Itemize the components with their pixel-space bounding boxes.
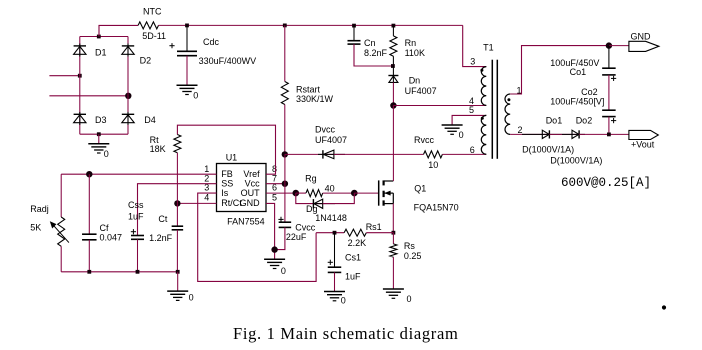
wire bridge right rail — [127, 37, 129, 135]
wire Vcc rail — [284, 154, 286, 222]
wire pin3 Is loop — [198, 193, 316, 281]
svg-text:1uF: 1uF — [345, 272, 361, 282]
node junction FB-Cf — [86, 171, 92, 177]
svg-text:D(1000V/1A): D(1000V/1A) — [522, 144, 574, 154]
capacitor Ct 1.2nF — [149, 214, 183, 243]
svg-text:100uF/450[V]: 100uF/450[V] — [550, 96, 604, 106]
resistor Rn 110K — [390, 36, 425, 58]
wire Ct bottom — [176, 230, 178, 272]
svg-text:Rs: Rs — [404, 241, 415, 251]
node junction OUT-Rg-Dg — [293, 190, 300, 197]
wire Co2 to Vout — [608, 117, 610, 135]
wire Cdc bottom lead — [186, 56, 188, 85]
diode Dvcc UF4007 — [315, 125, 347, 159]
label Do1 value — [522, 144, 574, 154]
capacitor Cvcc 22uF — [278, 217, 315, 242]
diode D2 — [122, 44, 151, 66]
node junction Dn-pin4-drain — [390, 102, 396, 108]
svg-text:U1: U1 — [226, 152, 238, 162]
svg-text:18K: 18K — [150, 144, 166, 154]
svg-text:Cn: Cn — [364, 38, 376, 48]
svg-text:D2: D2 — [140, 56, 152, 66]
label Do2 value — [550, 155, 602, 165]
wire Rn top lead — [392, 25, 394, 36]
svg-text:0: 0 — [459, 130, 464, 140]
wire Dvcc to Rvcc — [334, 153, 424, 155]
svg-text:3: 3 — [470, 56, 475, 66]
resistor Rg 40 — [305, 174, 335, 197]
svg-text:5D-11: 5D-11 — [142, 31, 166, 41]
svg-text:5K: 5K — [30, 223, 41, 233]
svg-text:Fig. 1 Main schematic diagram: Fig. 1 Main schematic diagram — [233, 324, 458, 343]
wire Dvcc anode lead — [285, 153, 334, 155]
U1 pin numbers right — [272, 164, 277, 203]
port GND flag — [629, 32, 659, 52]
resistor Rstart 330K/1W — [281, 82, 333, 105]
node junction Rstart-Dvcc — [282, 151, 288, 157]
wire Dg branch right — [323, 193, 355, 204]
node junction bus-Rn — [392, 24, 396, 28]
svg-text:Co2: Co2 — [581, 87, 598, 97]
wire NTC left + corner to bridge — [99, 25, 138, 36]
svg-text:0: 0 — [104, 149, 109, 159]
node junction bus-Ct — [176, 270, 180, 274]
svg-text:Radj: Radj — [30, 204, 49, 214]
wire Cs1 bottom — [334, 272, 336, 291]
node junction input2-bridge — [125, 93, 131, 99]
diode D4 — [122, 112, 156, 125]
wire Rvcc to T1 pin6 — [442, 153, 486, 155]
transformer T1 aux winding pins 5-6 — [469, 105, 486, 155]
ground Cs1 — [324, 292, 346, 306]
wire Do2 to Vout flag — [579, 133, 630, 135]
svg-text:0: 0 — [189, 293, 194, 303]
node junction input1-bridge — [78, 74, 82, 78]
wire Q1 source — [392, 204, 394, 233]
ground bottom bus — [167, 291, 193, 303]
svg-text:5: 5 — [469, 105, 474, 115]
node junction Vcc rail-pin7 — [282, 181, 288, 187]
capacitor Css 1uF — [128, 200, 144, 239]
svg-text:OUT: OUT — [241, 188, 261, 198]
svg-text:8.2nF: 8.2nF — [364, 48, 388, 58]
wire Cn bottom to node — [354, 44, 393, 66]
node junction bridge top — [97, 35, 101, 39]
node junction bus-Cn — [352, 24, 356, 28]
diode Dg 1N4148 — [306, 199, 347, 223]
wire Cs1 top lead — [334, 233, 336, 267]
op-amp U1 FAN7554 box — [217, 152, 267, 226]
svg-text:2.2K: 2.2K — [348, 238, 367, 248]
wire bus corner to T1 pin3 — [463, 25, 487, 66]
svg-text:Dn: Dn — [409, 76, 421, 86]
node junction Rg-Dg-gate — [351, 190, 358, 197]
capacitor Cf 0.047 — [82, 223, 122, 242]
label output rating — [561, 176, 651, 190]
svg-text:D3: D3 — [95, 115, 107, 125]
svg-text:330K/1W: 330K/1W — [296, 94, 334, 104]
wire Rstart top lead — [284, 25, 286, 81]
svg-text:Rstart: Rstart — [296, 85, 321, 95]
wire Ct column — [176, 203, 178, 226]
svg-text:0.047: 0.047 — [100, 232, 123, 242]
wire Vref to Rt — [177, 125, 275, 174]
port +Vout flag — [629, 130, 658, 149]
transformer T1 secondary winding pins 1-2 — [505, 86, 523, 135]
diode D1 — [74, 44, 107, 58]
svg-text:0: 0 — [341, 296, 346, 306]
wire Dn cathode lead — [392, 66, 394, 82]
svg-text:NTC: NTC — [143, 7, 162, 17]
svg-text:UF4007: UF4007 — [405, 86, 437, 96]
capacitor Co2 100uF/450[V] — [550, 87, 616, 123]
wire Co1 to Co2 — [608, 75, 610, 110]
wire pin6 OUT stub — [266, 192, 296, 194]
caption — [233, 324, 458, 343]
svg-text:Is: Is — [221, 188, 229, 198]
wire Rs bottom — [392, 257, 394, 289]
svg-text:Do1: Do1 — [546, 116, 563, 126]
wire Cf column top — [88, 174, 90, 234]
svg-text:+Vout: +Vout — [631, 140, 655, 150]
svg-text:FB: FB — [221, 169, 233, 179]
svg-text:1uF: 1uF — [128, 212, 144, 222]
capacitor Cn 8.2nF — [348, 38, 388, 58]
svg-text:Css: Css — [128, 200, 144, 210]
resistor Rs 0.25 — [390, 241, 422, 261]
wire pin2 SS — [138, 184, 217, 236]
node junction bus-Rstart — [283, 24, 287, 28]
node junction bridge bottom — [97, 132, 101, 136]
diode Do2 D(1000V/1A) — [562, 116, 592, 139]
capacitor Cs1 1uF — [328, 252, 361, 281]
node junction Cs1 tap — [333, 231, 337, 235]
wire Rg to gate node — [323, 192, 355, 194]
svg-text:1: 1 — [204, 164, 209, 174]
node junction Rt-Ct-pin4 — [174, 200, 180, 206]
wire pin1 FB — [61, 173, 216, 175]
ground T1 pin5 — [442, 125, 464, 140]
transformer T1 core — [492, 60, 497, 159]
wire pin4 RtCt — [177, 202, 216, 204]
U1 pin names right — [240, 169, 261, 208]
node junction bus-Cf — [87, 270, 91, 274]
stray dot — [662, 305, 666, 309]
wire to GND flag — [609, 45, 630, 47]
node junction Co2-Vout — [607, 133, 611, 137]
svg-text:0: 0 — [281, 266, 286, 276]
thermistor NTC 5D-11 — [138, 7, 166, 42]
svg-text:5: 5 — [272, 192, 277, 202]
wire Cvcc bottom — [275, 227, 285, 249]
wire T1 pin2 to Do1 — [510, 133, 549, 135]
wire top bus — [159, 24, 463, 26]
svg-text:GND: GND — [240, 198, 261, 208]
svg-text:Rs1: Rs1 — [366, 222, 382, 232]
transistor Q1 FQA15N70 — [379, 180, 459, 212]
wire Rt bottom — [176, 153, 178, 204]
svg-text:D1: D1 — [95, 48, 107, 58]
node junction bus-Cdc — [185, 24, 189, 28]
wire AC input line 2 — [49, 95, 128, 97]
diode Dn UF4007 — [388, 76, 436, 96]
svg-text:Dvcc: Dvcc — [315, 125, 335, 135]
node junction source-Rs1-Rs — [392, 231, 396, 235]
wire Radj column top — [60, 174, 62, 217]
wire Rs top lead — [392, 233, 394, 244]
wire pin5 GND column — [266, 203, 275, 259]
svg-text:Do2: Do2 — [576, 116, 593, 126]
wire Q1 drain — [392, 106, 394, 182]
svg-text:GND: GND — [631, 32, 652, 42]
svg-text:Vref: Vref — [243, 169, 260, 179]
node junction Cn-Rn-Dn — [391, 64, 395, 68]
svg-text:40: 40 — [325, 183, 335, 193]
svg-text:D4: D4 — [144, 115, 156, 125]
svg-text:4: 4 — [204, 192, 209, 202]
wire bus ground stem — [177, 272, 179, 291]
svg-text:Co1: Co1 — [570, 67, 587, 77]
transformer T1 primary winding pins 3-4 — [469, 56, 486, 106]
U1 pin numbers left — [204, 164, 209, 203]
svg-text:1N4148: 1N4148 — [315, 213, 347, 223]
svg-text:Q1: Q1 — [414, 184, 426, 194]
svg-text:Cs1: Cs1 — [345, 252, 361, 262]
ground Cdc — [177, 85, 199, 100]
svg-text:330uF/400WV: 330uF/400WV — [199, 56, 257, 66]
wire Dn anode lead — [392, 82, 394, 105]
svg-text:2: 2 — [517, 125, 522, 135]
node junction Co1 top — [606, 42, 612, 48]
wire Do1 to Do2 — [549, 133, 579, 135]
svg-text:600V@0.25[A]: 600V@0.25[A] — [561, 176, 651, 190]
wire Rn bottom lead — [392, 56, 394, 66]
wire bridge top — [80, 36, 128, 38]
wire bridge left rail — [79, 37, 81, 135]
wire Is loop to Rs1 — [316, 232, 344, 234]
svg-text:10: 10 — [428, 160, 438, 170]
resistor Rt 18K — [150, 135, 181, 154]
wire T1 pin1 up to GND bus — [510, 46, 609, 94]
svg-text:8: 8 — [272, 164, 277, 174]
ground bridge — [88, 134, 109, 159]
wire Rs1 to source — [366, 232, 393, 234]
wire Cdc top lead — [186, 25, 188, 51]
svg-text:Rvcc: Rvcc — [414, 135, 434, 145]
diode D3 — [74, 112, 107, 125]
svg-text:22uF: 22uF — [286, 232, 307, 242]
transformer T1 label — [483, 42, 494, 52]
resistor Rs1 2.2K — [344, 222, 382, 248]
wire node to T1 pin4 — [393, 105, 486, 107]
potentiometer Radj 5K — [30, 204, 69, 246]
svg-text:0: 0 — [407, 294, 412, 304]
capacitor Cdc 330uF/400WV — [169, 37, 256, 66]
U1 pin names left — [221, 169, 242, 208]
node junction bus-Css — [136, 270, 140, 274]
svg-text:Rn: Rn — [405, 38, 417, 48]
wire T1 pin5 to ground — [452, 115, 486, 125]
svg-text:110K: 110K — [405, 48, 425, 58]
wire gate wire — [354, 192, 378, 194]
wire Radj bottom — [60, 246, 62, 271]
wire AC input line 1 — [49, 75, 79, 77]
svg-text:1.2nF: 1.2nF — [149, 233, 173, 243]
wire Css bottom — [137, 239, 139, 271]
ground Rs — [383, 289, 412, 304]
wire bottom bus — [61, 271, 178, 273]
node junction pin5-Cvcc — [271, 246, 277, 252]
capacitor Co1 100uF/450V — [550, 46, 616, 81]
svg-text:0.25: 0.25 — [404, 251, 422, 261]
svg-text:0: 0 — [193, 90, 198, 100]
wire Dg branch left — [296, 193, 323, 204]
wire pin7 Vcc stub — [266, 183, 285, 185]
svg-text:6: 6 — [470, 145, 475, 155]
svg-text:FAN7554: FAN7554 — [227, 216, 265, 226]
wire Cf bottom — [88, 240, 90, 272]
svg-text:FQA15N70: FQA15N70 — [414, 203, 459, 213]
resistor Rvcc 10 — [414, 135, 442, 170]
svg-text:D(1000V/1A): D(1000V/1A) — [550, 155, 602, 165]
wire bridge bottom — [80, 133, 128, 135]
svg-text:T1: T1 — [483, 42, 494, 52]
diode Do1 D(1000V/1A) — [522, 116, 562, 139]
ground U1-Cvcc — [264, 259, 286, 276]
svg-text:Ct: Ct — [158, 214, 167, 224]
svg-text:Rg: Rg — [305, 174, 317, 184]
wire Cn top lead — [353, 25, 355, 40]
wire Rstart bottom lead — [284, 105, 286, 155]
svg-text:Cdc: Cdc — [203, 37, 220, 47]
wire OUT to Rg — [296, 192, 306, 194]
svg-text:UF4007: UF4007 — [315, 135, 347, 145]
